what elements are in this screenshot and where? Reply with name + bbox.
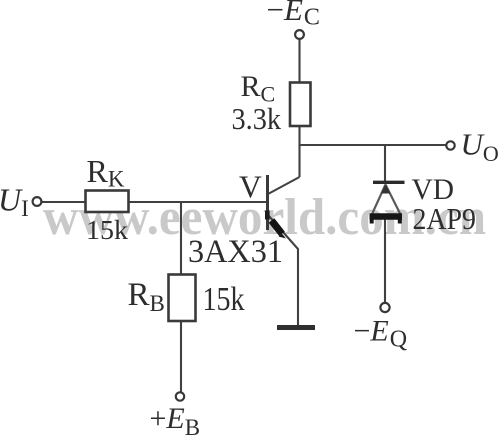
- svg-text:15k: 15k: [86, 215, 129, 245]
- svg-text:3AX31: 3AX31: [188, 234, 283, 270]
- svg-text:2AP9: 2AP9: [413, 201, 477, 236]
- svg-text:V: V: [239, 170, 262, 205]
- svg-text:3.3k: 3.3k: [232, 101, 282, 136]
- svg-text:−EC: −EC: [267, 0, 320, 31]
- svg-text:15k: 15k: [203, 281, 245, 318]
